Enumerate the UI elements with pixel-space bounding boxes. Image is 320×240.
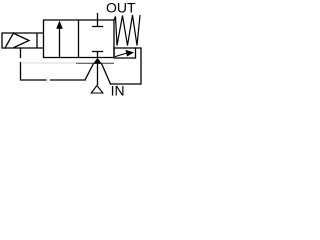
svg-text:IN: IN xyxy=(111,83,125,99)
svg-text:OUT: OUT xyxy=(106,0,136,16)
